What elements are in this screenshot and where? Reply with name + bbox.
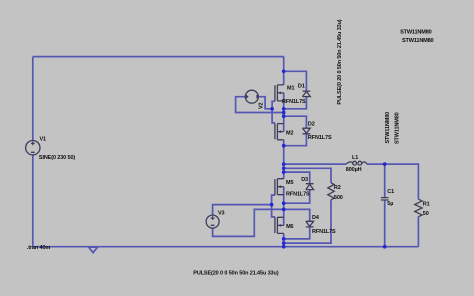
resistor R2 [328, 183, 334, 200]
diode D4 [306, 221, 314, 227]
svg-text:.tran 40m: .tran 40m [27, 245, 51, 251]
svg-text:500: 500 [334, 195, 343, 201]
wire bottom rail [33, 246, 419, 248]
svg-text:D3: D3 [301, 177, 308, 183]
svg-text:SINE(0 230 50): SINE(0 230 50) [39, 155, 76, 161]
svg-text:800µH: 800µH [346, 167, 362, 173]
wire D4 bottom return [284, 227, 310, 239]
resistor R1 [415, 199, 422, 217]
svg-text:M5: M5 [286, 180, 293, 186]
svg-text:M1: M1 [287, 86, 294, 92]
svg-text:V1: V1 [40, 137, 47, 143]
svg-text:D4: D4 [312, 215, 320, 221]
diode D2 [303, 128, 311, 134]
wire D1 bottom return [284, 97, 307, 109]
wire to D1 anode-top [284, 71, 307, 91]
voltage source V3 [206, 215, 219, 228]
svg-text:D2: D2 [308, 121, 315, 127]
svg-text:50: 50 [423, 211, 429, 217]
svg-text:V2: V2 [259, 102, 265, 109]
wire top rail [33, 56, 284, 58]
svg-text:STW11NM80: STW11NM80 [385, 112, 391, 144]
svg-text:5µ: 5µ [387, 201, 393, 207]
svg-text:L1: L1 [352, 155, 358, 161]
wire C1 leads [384, 164, 386, 247]
svg-text:PULSE(20 0 0 50n 50n 21.45u 33: PULSE(20 0 0 50n 50n 21.45u 33u) [193, 271, 278, 277]
inductor L1 [346, 161, 367, 165]
voltage source V1 [26, 141, 40, 155]
svg-text:STW11NM80: STW11NM80 [394, 112, 400, 144]
wire left drop to V1 [32, 57, 34, 141]
svg-text:RFN1L7S: RFN1L7S [286, 192, 310, 198]
svg-text:M2: M2 [286, 131, 293, 137]
diode D3 [306, 184, 314, 190]
junction dots [270, 69, 387, 248]
wire M1 source to M2 mid [283, 93, 285, 132]
svg-text:PULSE(0 20 0 50n 50n 21.45u 33: PULSE(0 20 0 50n 50n 21.45u 33u) [337, 19, 343, 104]
wire R1 bottom lead [417, 217, 419, 247]
wire to D3 top [284, 172, 310, 184]
voltage source V2 [245, 90, 258, 103]
wire L1 to R1 top [367, 164, 419, 199]
transistor M1 [275, 85, 284, 101]
wire M2 source to M5 drain [283, 140, 285, 179]
wire V2 right lead to gate node [258, 97, 272, 109]
transistor M6 [275, 217, 284, 233]
svg-text:C1: C1 [387, 189, 394, 195]
svg-text:RFN1L7S: RFN1L7S [312, 229, 336, 235]
svg-text:STW11NM80: STW11NM80 [402, 38, 434, 44]
svg-text:D1: D1 [298, 84, 305, 90]
wire V3 top lead to gate node [213, 205, 272, 216]
svg-text:R1: R1 [423, 202, 430, 208]
svg-text:V3: V3 [218, 211, 225, 217]
wire D2 bottom return [284, 134, 307, 146]
wire R2 bottom return [284, 200, 331, 243]
wire to D4 top [284, 209, 310, 221]
ground [89, 247, 98, 253]
wire V1 bottom to rail [32, 155, 34, 247]
wire M6 source to rail [283, 233, 285, 246]
wire M5 source to M6 mid [283, 187, 285, 226]
wire gate node M1-M2 [272, 101, 275, 123]
wire to D2 top [284, 116, 307, 128]
wire output node to L1 [284, 163, 347, 165]
svg-text:RFN1L7S: RFN1L7S [282, 99, 306, 105]
wire V3 bottom lead to mid node [213, 209, 284, 236]
wire gate node M5-M6 [272, 195, 275, 217]
svg-text:STW11NM80: STW11NM80 [400, 29, 432, 35]
diode D1 [303, 91, 311, 97]
wire V2 left lead to mid node [236, 97, 284, 113]
svg-text:M6: M6 [286, 224, 293, 230]
svg-text:R2: R2 [334, 185, 341, 191]
transistor M5 [275, 179, 284, 195]
svg-text:RFN1L7S: RFN1L7S [308, 135, 332, 141]
wire M1 drain column [283, 57, 285, 85]
wire D3 bottom return [284, 190, 310, 204]
wire to R2 top [284, 168, 331, 183]
transistor M2 [275, 123, 284, 140]
capacitor C1 [381, 198, 389, 200]
